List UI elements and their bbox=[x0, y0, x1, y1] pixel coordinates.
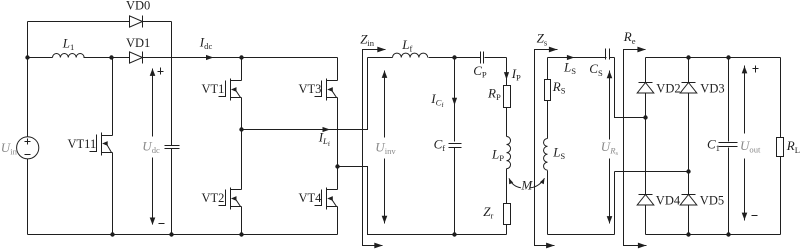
svg-text:VD5: VD5 bbox=[700, 194, 724, 208]
svg-text:VT1: VT1 bbox=[202, 82, 225, 96]
svg-text:VD4: VD4 bbox=[656, 194, 681, 208]
svg-text:VT11: VT11 bbox=[68, 137, 97, 151]
svg-text:VD0: VD0 bbox=[126, 0, 150, 13]
svg-text:VD3: VD3 bbox=[700, 81, 724, 95]
svg-text:VD2: VD2 bbox=[656, 81, 680, 95]
svg-text:VT3: VT3 bbox=[299, 82, 322, 96]
svg-text:M: M bbox=[520, 178, 533, 193]
svg-text:VT2: VT2 bbox=[202, 191, 225, 205]
svg-text:VD1: VD1 bbox=[126, 36, 150, 50]
svg-text:VT4: VT4 bbox=[299, 191, 323, 205]
